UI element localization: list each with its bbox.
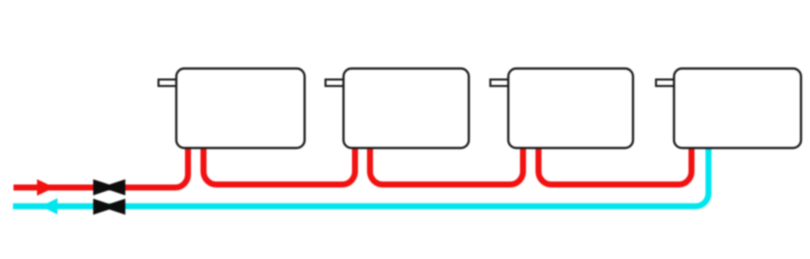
wire radiator3-to-radiator4 (red)	[539, 147, 692, 185]
radiator 3	[508, 69, 633, 149]
valve V1 on supply line	[93, 179, 125, 195]
arrow return flow (cyan, pointing left)	[41, 198, 58, 214]
radiator 1	[176, 69, 304, 149]
wire return main (cyan) from radiator 4 to outlet	[13, 147, 709, 206]
radiator 2	[344, 69, 469, 149]
wire supply main (red) from inlet to radiator 1 riser	[14, 147, 189, 188]
wire radiator1-to-radiator2 (red)	[204, 147, 356, 185]
arrow supply flow (red, pointing right)	[37, 179, 55, 195]
valve V2 on return line	[93, 199, 125, 215]
radiator 4	[674, 69, 801, 149]
radiator 3 vent tab	[490, 80, 509, 87]
radiator 2 vent tab	[326, 80, 345, 87]
radiator 4 vent tab	[656, 80, 675, 87]
wire radiator2-to-radiator3 (red)	[370, 147, 523, 185]
radiator 1 vent tab	[159, 80, 178, 87]
